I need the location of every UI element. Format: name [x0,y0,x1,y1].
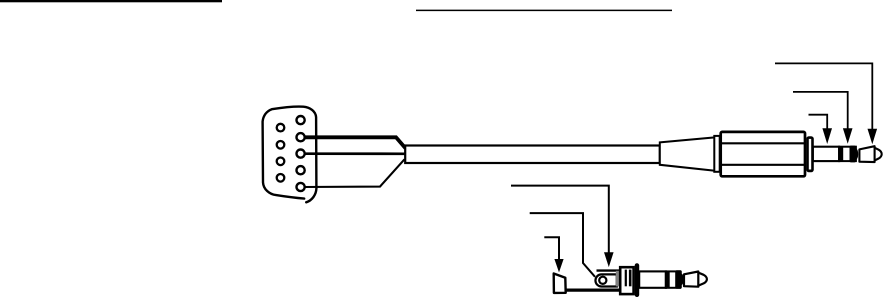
plug P1 barrel upper groove line [721,142,805,144]
DB9 connector shell J1 [263,107,317,199]
callout arrow to plug P2 crimp barrel [511,186,609,254]
DB9 pin 5 (right column bottom) [297,183,305,191]
wire from pin 2 to cable (thick) [304,137,406,148]
plug P1 rear collar [714,136,719,172]
header rule left [0,0,222,2]
callout arrow to plug P1 tip [775,63,872,131]
header rule center [416,9,672,11]
DB9 pin 7 (left column) [277,141,285,149]
wire from pin 5 to cable (bottom) [304,159,405,187]
callout arrow to plug P1 sleeve [809,115,828,131]
cable jacket [405,146,660,164]
plug P2 ring section body [666,271,680,287]
DB9 pin 2 (right column) [297,133,305,141]
plug P2 crimp barrel [595,274,616,286]
plug P1 barrel lower groove line [721,164,805,166]
plug P2 body [620,267,633,294]
DB9 pin 6 (left column top) [277,124,285,132]
plug P2 insulator band 2 [675,270,682,289]
DB9 pin 8 (left column) [277,158,285,166]
plug P2 sleeve shaft [639,271,666,287]
plug P1 tip body [859,146,874,162]
plug P2 cable entry line [597,269,620,271]
plug P1 insulator band 1 [839,146,843,162]
plug P2 ground wire [566,289,621,292]
strain relief cone [660,137,715,170]
plug P1 insulator band 2 [850,146,857,163]
plug P2 crimp barrel hole [599,277,606,284]
wire from pin 3 to cable (middle) [304,152,405,155]
plug P1 tip cap [875,148,882,161]
plug P2 body bar 1 [625,270,627,287]
plug P2 body bar 2 [629,270,632,287]
DB9 pin 9 (left column bottom) [277,174,285,182]
plug P2 insulator washer (gray) [616,271,620,287]
plug P1 ring section body [839,147,856,161]
plug P1 front collar [806,136,814,172]
DB9 pin 4 (right column) [297,166,305,174]
DB9 pin 3 (right column) [297,150,305,158]
plug P1 barrel body [721,132,805,176]
callout arrow to plug P2 ground lug [544,237,559,260]
plug P2 tip body [684,272,698,287]
DB9 pin 1 (right column top) [297,116,305,124]
plug P2 ground lug [554,274,566,293]
plug P2 flange [635,263,640,297]
callout leader to plug P2 terminal [530,213,595,277]
plug P2 tip cap [698,273,707,286]
plug P2 insulator band 1 [665,271,670,289]
callout arrow to plug P1 ring [793,92,848,131]
plug P1 sleeve shaft [813,147,839,161]
